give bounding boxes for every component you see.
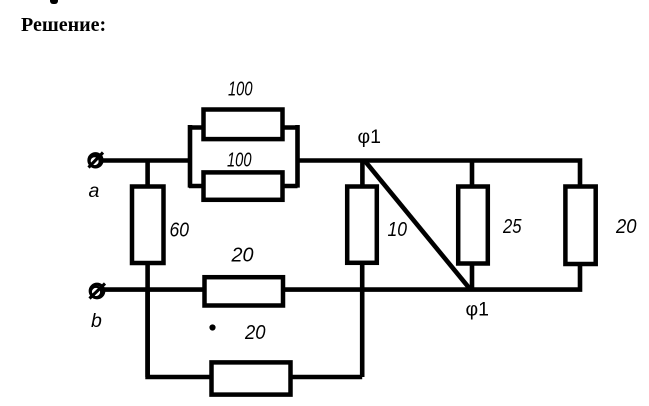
terminal a [89,153,104,168]
resistor R2 100 (lower of pair) [204,172,283,199]
resistor R7 20 (middle, in series on bottom rail) [205,277,284,305]
wire: bottom loop right segment and riser [291,375,363,380]
wire: bracket left bar of parallel pair [188,125,193,188]
wire: R4 bottom stub to bottom rail corner [283,264,580,290]
wire: bottom loop left riser and left segment [148,290,212,377]
svg-text:25: 25 [502,215,522,238]
resistor R8 20 (bottom loop) [212,362,291,394]
junction dot [209,324,215,330]
resistor R5 10 [347,187,377,263]
svg-text:a: a [89,180,100,202]
wire: top rail left (terminal a to parallel bracket) [99,158,190,163]
title "Решение:" [21,14,106,37]
svg-text:φ1: φ1 [466,299,490,321]
wire: stub from top rail down to R3 (60) [145,161,150,187]
wire: top rail right (bracket to top-right corner, down to R4 top) [298,161,581,187]
terminal b [90,284,106,299]
svg-text:100: 100 [227,149,252,172]
wire: bottom rail left (terminal b to R7) [101,287,205,292]
leftover text descender fragment [50,0,58,4]
wire: stub from top rail down to R6 (25) [470,161,475,187]
wire: R3 bottom lead continuing through bottom rail to bottom loop [145,263,150,377]
svg-text:φ1: φ1 [358,126,382,148]
svg-text:20: 20 [231,243,255,266]
wire: top branch stubs [189,125,298,130]
wire: bottom branch stubs [189,184,298,189]
wire: R5 bottom lead through bottom rail down to bottom loop [360,263,365,377]
resistor R3 60 [132,187,164,264]
svg-text:10: 10 [388,218,408,241]
svg-text:b: b [91,310,102,332]
resistor R6 25 [458,187,488,264]
wire: R6 bottom stub to bottom rail [470,264,475,290]
svg-text:20: 20 [244,321,266,344]
svg-text:20: 20 [615,215,637,238]
wire: bracket right bar of parallel pair [295,125,300,188]
wire: stub from top rail down to R5 (10) [360,161,365,187]
resistor R4 20 (right) [565,187,595,265]
wire: diagonal from node φ1 top to node φ1 bottom [365,161,471,290]
svg-text:60: 60 [170,219,190,242]
resistor R1 100 (top) [204,110,283,140]
svg-text:100: 100 [228,78,253,101]
